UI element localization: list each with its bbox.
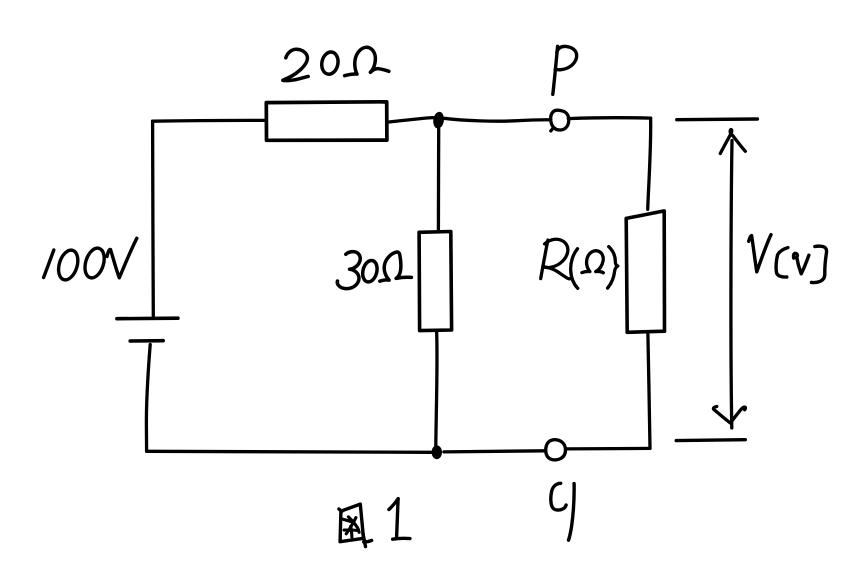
label 20Ω value of R1 <box>283 47 389 80</box>
junction node B (solder dot) <box>432 445 442 459</box>
label 100V value of battery <box>44 238 137 282</box>
label V[v] <box>749 235 827 283</box>
label 30Ω value of R2 <box>337 252 411 289</box>
wire R bottom lead <box>648 335 650 449</box>
label P <box>553 46 577 94</box>
blob at start of 2 underline <box>281 78 288 83</box>
variable resistor R(Ω) box <box>626 211 664 332</box>
wire top-right corner down to R <box>648 118 651 209</box>
terminal P (open circle) <box>551 110 569 131</box>
resistor R2 box (30 ohm) <box>419 232 452 331</box>
wire R1 to node A <box>387 118 434 123</box>
wire battery positive lead (left vertical) <box>151 121 155 316</box>
caption 図1 (figure 1) <box>339 499 410 547</box>
wire node A to terminal P <box>444 118 551 121</box>
junction node A (solder dot) <box>432 111 445 129</box>
voltmeter bottom reference bar <box>676 438 745 442</box>
battery E1 negative plate (short) <box>130 339 163 343</box>
wire 30Ω resistor down to node B <box>436 331 437 446</box>
wire node A down to 30Ω resistor <box>437 129 441 232</box>
wire bottom-right horizontal (R to terminal q) <box>566 447 650 451</box>
wire bottom-left horizontal (node B to battery) <box>147 451 432 452</box>
label R(Ω) <box>541 239 618 288</box>
label q <box>551 483 574 540</box>
arrowhead bottom <box>713 407 745 424</box>
terminal q (open circle) <box>546 440 566 460</box>
arrowhead top <box>720 130 745 154</box>
voltage arrow V shaft <box>731 141 732 429</box>
wire top-left horizontal to R1 <box>153 119 267 123</box>
wire battery negative lead <box>146 345 150 452</box>
resistor R1 box (20 ohm) <box>266 102 387 141</box>
voltmeter top reference bar <box>677 117 758 121</box>
wire terminal P to top-right corner <box>568 116 650 120</box>
battery E1 positive plate (long) <box>117 316 178 320</box>
wire terminal q to node B <box>444 451 546 452</box>
